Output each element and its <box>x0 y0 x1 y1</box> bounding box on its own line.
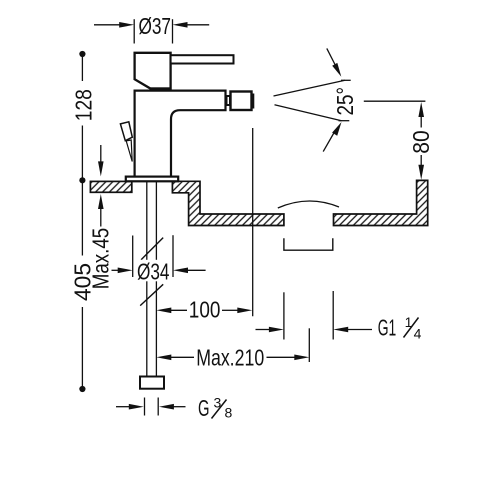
waste pipe U outline <box>284 238 333 250</box>
svg-text:128: 128 <box>71 89 97 121</box>
bidet ceramic right section with step (hatched) <box>172 181 284 225</box>
svg-text:Ø34: Ø34 <box>137 259 170 285</box>
handle head <box>135 53 171 91</box>
svg-text:25°: 25° <box>332 87 358 116</box>
spout tip extension line <box>252 128 254 316</box>
faucet body <box>135 91 226 177</box>
aerator connector neck <box>227 96 231 105</box>
svg-text:Max.210: Max.210 <box>196 345 264 371</box>
dimension 128 <box>71 51 97 184</box>
svg-text:Max.45: Max.45 <box>88 228 114 290</box>
supply pipe lines <box>147 181 157 376</box>
svg-text:8: 8 <box>225 405 233 421</box>
bidet deck left section (hatched) <box>90 181 131 192</box>
svg-text:100: 100 <box>189 297 221 323</box>
dimension Ø37 <box>94 13 209 44</box>
svg-text:G1: G1 <box>378 315 397 341</box>
angle 25 degrees label <box>332 87 358 116</box>
base plate <box>126 177 178 182</box>
angle 25 degrees upper arrow <box>327 48 342 76</box>
spray cone lower line <box>275 105 350 121</box>
G3/8 connector block <box>140 377 164 389</box>
pipe break slash 1 <box>141 238 163 260</box>
svg-text:4: 4 <box>414 326 422 342</box>
dimension Max.210 <box>156 328 309 370</box>
dimension Ø34 <box>112 235 206 284</box>
side drain lever <box>120 122 132 162</box>
handle lever <box>171 55 234 63</box>
angle 25 degrees lower arrow <box>323 122 341 152</box>
dimension 405 <box>70 183 96 393</box>
dimension Max.45 <box>88 145 114 289</box>
dimension G 3/8 <box>116 395 233 421</box>
drain dome arc <box>278 201 339 208</box>
spray reference line (80 top) <box>364 100 426 102</box>
aerator <box>231 92 254 111</box>
dimension G1 1/4 <box>256 291 422 342</box>
svg-text:80: 80 <box>408 130 434 154</box>
dimension 100 <box>156 297 252 323</box>
bidet ceramic far-right section with rim (hatched) <box>334 180 428 225</box>
spray cone upper line <box>274 80 351 96</box>
svg-text:Ø37: Ø37 <box>139 13 172 39</box>
svg-text:G: G <box>198 395 210 421</box>
pipe break slash 2 <box>140 284 163 305</box>
dimension 80 <box>408 102 434 180</box>
